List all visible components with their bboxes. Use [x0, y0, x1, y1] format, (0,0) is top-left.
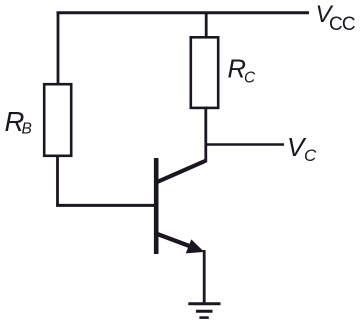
- svg-text:B: B: [22, 120, 32, 137]
- wire left vertical (rail to RB): [57, 12, 60, 85]
- wire VC horizontal: [205, 143, 285, 146]
- wire top VCC rail: [57, 11, 310, 14]
- resistor RB: [44, 84, 71, 156]
- resistor RC: [191, 37, 218, 108]
- svg-text:C: C: [304, 146, 317, 165]
- transistor Q1 emitter arrowhead: [187, 240, 204, 253]
- transistor Q1 collector stroke: [156, 161, 205, 183]
- ground bar 2: [196, 310, 213, 313]
- wire base horizontal: [56, 204, 158, 207]
- ground bar 1: [188, 302, 220, 305]
- ground bar 3: [199, 316, 208, 319]
- wire emitter vertical: [203, 250, 206, 304]
- wire RC stub from rail: [205, 12, 208, 38]
- wire RB to base node: [56, 155, 59, 207]
- transistor Q1 emitter stroke: [156, 234, 196, 249]
- wire collector vertical: [204, 107, 207, 163]
- svg-text:C: C: [244, 70, 256, 87]
- svg-text:CC: CC: [329, 14, 355, 35]
- transistor Q1 base bar: [154, 158, 159, 254]
